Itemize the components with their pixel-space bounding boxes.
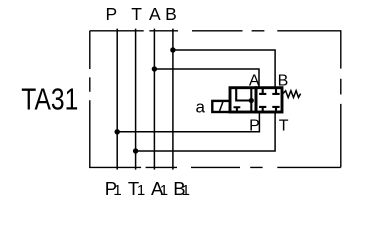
valve V1 body left square bbox=[230, 88, 256, 112]
svg-text:1: 1 bbox=[137, 182, 145, 199]
valve V1 right position blocked port B bbox=[272, 88, 279, 94]
svg-text:A: A bbox=[249, 72, 260, 89]
node P junction dot bbox=[115, 129, 120, 134]
module outline dashed border top bbox=[90, 30, 341, 32]
svg-text:T: T bbox=[131, 4, 142, 24]
valve V1 left position blocked port P bbox=[234, 107, 241, 112]
valve V1 left position internal path A-B-T bbox=[236, 88, 251, 112]
svg-text:1: 1 bbox=[113, 182, 121, 199]
valve V1 right position blocked port A bbox=[259, 88, 266, 94]
node T junction dot bbox=[133, 148, 138, 153]
valve V1 right position blocked port P bbox=[259, 107, 266, 112]
svg-text:P: P bbox=[106, 4, 118, 24]
svg-text:B: B bbox=[278, 72, 289, 89]
svg-text:a: a bbox=[196, 98, 206, 117]
node B junction dot bbox=[170, 47, 175, 52]
solenoid actuator a bbox=[212, 101, 230, 112]
node valve internal junction dot bbox=[249, 98, 254, 103]
node A junction dot bbox=[152, 66, 157, 71]
wire B branch to valve bbox=[173, 50, 275, 87]
svg-text:TA31: TA31 bbox=[21, 83, 78, 117]
wire T line vertical bbox=[135, 29, 137, 170]
valve V1 right position blocked port T bbox=[272, 107, 279, 112]
valve V1 body right square bbox=[256, 88, 282, 112]
module outline dashed border bottom bbox=[89, 166, 341, 168]
wire P line vertical bbox=[116, 29, 118, 170]
module outline dashed border left bbox=[89, 31, 91, 168]
spring return bbox=[282, 91, 300, 98]
wire A branch to valve bbox=[154, 69, 259, 87]
svg-text:A: A bbox=[149, 4, 161, 24]
svg-text:B: B bbox=[165, 4, 177, 24]
svg-text:1: 1 bbox=[182, 182, 190, 199]
svg-text:1: 1 bbox=[160, 182, 168, 199]
module outline dashed border right bbox=[340, 30, 342, 167]
wire B line vertical bbox=[172, 29, 174, 170]
wire T branch from valve bbox=[136, 112, 276, 151]
wire P branch from valve bbox=[117, 112, 259, 132]
svg-text:T: T bbox=[279, 117, 289, 134]
wire A line vertical bbox=[153, 29, 155, 170]
svg-text:P: P bbox=[249, 117, 260, 134]
solenoid diagonal bbox=[219, 101, 223, 112]
